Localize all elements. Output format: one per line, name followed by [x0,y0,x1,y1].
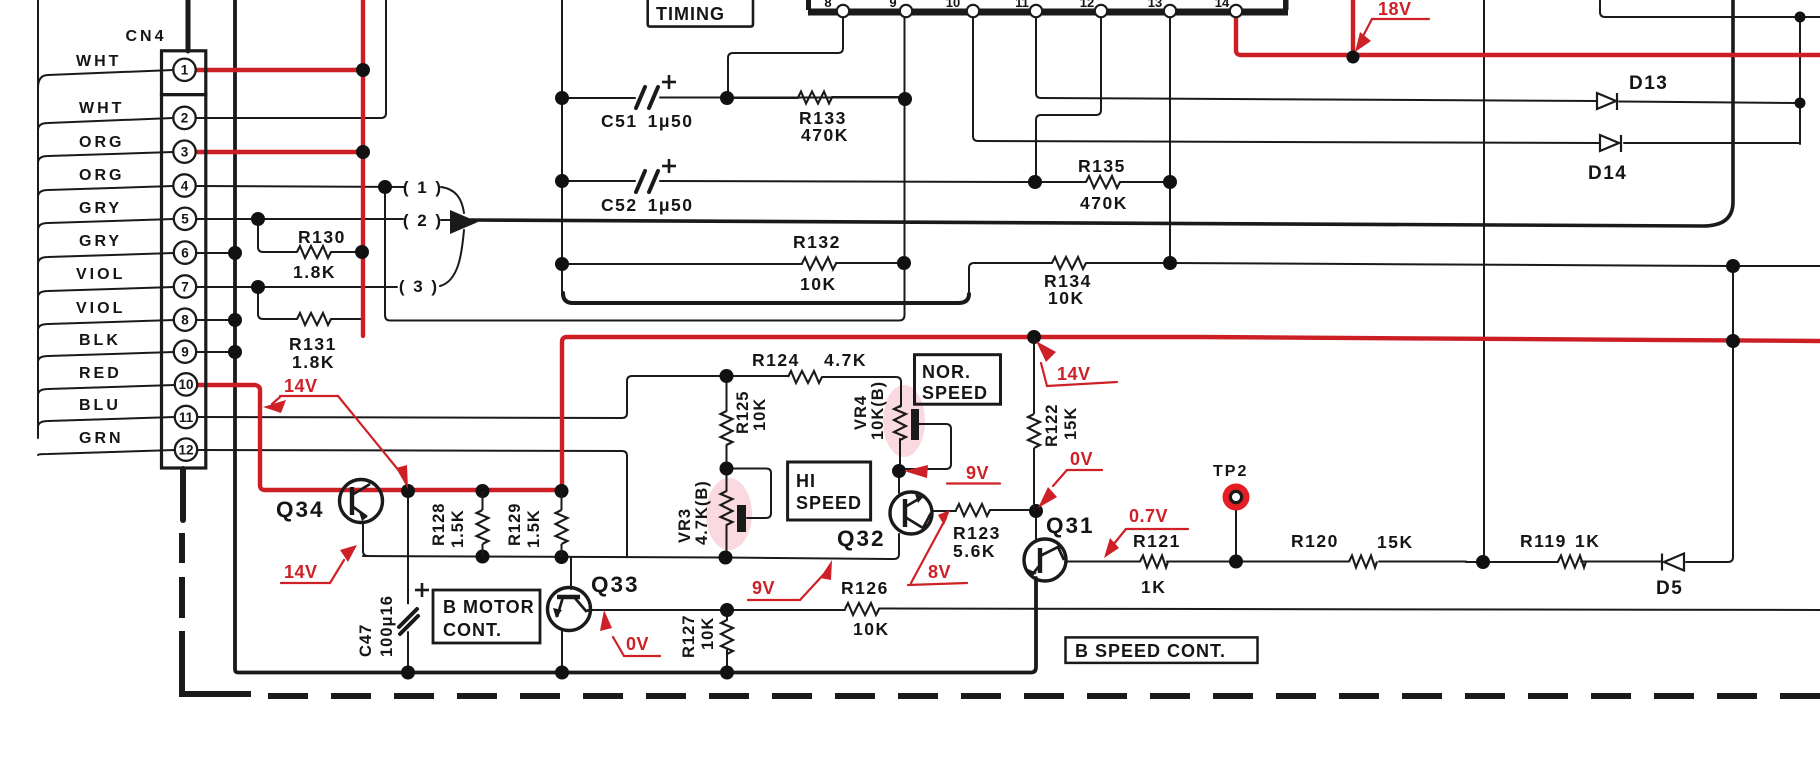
svg-text:R130: R130 [298,227,346,247]
svg-text:14V: 14V [1057,364,1091,384]
svg-text:RED: RED [79,365,122,382]
svg-text:C51 1μ50: C51 1μ50 [601,111,694,131]
svg-text:7: 7 [181,279,189,294]
svg-text:R126: R126 [841,578,889,598]
svg-text:1K: 1K [1141,577,1166,597]
svg-text:R135: R135 [1078,156,1126,176]
svg-text:4.7K(B): 4.7K(B) [693,480,711,545]
svg-text:8: 8 [824,0,831,10]
svg-text:10: 10 [178,377,193,392]
svg-text:1.5K: 1.5K [449,509,467,548]
svg-text:13: 13 [1148,0,1162,10]
svg-text:VR4: VR4 [852,395,870,430]
svg-text:470K: 470K [801,125,849,145]
svg-text:11: 11 [1015,0,1029,10]
svg-text:10: 10 [946,0,960,10]
svg-text:9: 9 [181,345,189,360]
svg-text:1.8K: 1.8K [293,262,336,282]
svg-text:Q32: Q32 [837,526,886,551]
svg-text:HI: HI [796,471,816,491]
svg-text:WHT: WHT [79,100,124,117]
svg-text:R127: R127 [680,615,698,658]
svg-text:9: 9 [889,0,896,10]
svg-text:ORG: ORG [79,167,124,184]
svg-text:10K: 10K [853,619,890,639]
svg-text:0V: 0V [626,634,649,654]
svg-text:SPEED: SPEED [922,383,988,403]
svg-text:1.5K: 1.5K [525,509,543,548]
svg-text:1.8K: 1.8K [292,352,335,372]
svg-text:GRY: GRY [79,233,122,250]
svg-text:NOR.: NOR. [922,362,971,382]
svg-text:3: 3 [181,145,189,160]
svg-text:D13: D13 [1629,73,1668,94]
svg-text:14V: 14V [284,376,318,396]
svg-text:4: 4 [181,178,189,193]
svg-text:BLK: BLK [79,332,121,349]
svg-text:( 1 ): ( 1 ) [403,178,443,197]
svg-text:5.6K: 5.6K [953,541,996,561]
svg-text:C52 1μ50: C52 1μ50 [601,195,694,215]
svg-text:GRN: GRN [79,430,124,447]
svg-text:10K: 10K [699,617,717,650]
svg-text:ORG: ORG [79,134,124,151]
svg-text:R124: R124 [752,350,800,370]
svg-text:0V: 0V [1070,449,1093,469]
svg-text:15K: 15K [1377,532,1414,552]
svg-text:1K: 1K [1575,531,1600,551]
svg-text:1: 1 [181,63,189,78]
svg-text:0.7V: 0.7V [1129,506,1168,526]
svg-text:12: 12 [178,442,193,457]
svg-text:8V: 8V [928,562,951,582]
svg-text:14: 14 [1215,0,1230,10]
svg-text:R128: R128 [430,503,448,546]
svg-text:R121: R121 [1133,531,1181,551]
svg-text:2: 2 [181,111,189,126]
svg-text:C47: C47 [357,624,375,657]
svg-text:TP2: TP2 [1213,463,1248,480]
svg-text:15K: 15K [1062,407,1080,440]
svg-text:( 2 ): ( 2 ) [403,211,443,230]
svg-text:R123: R123 [953,523,1001,543]
svg-text:Q31: Q31 [1046,513,1095,538]
svg-text:R125: R125 [734,391,752,434]
svg-text:12: 12 [1080,0,1094,10]
svg-text:8: 8 [181,313,189,328]
svg-text:VIOL: VIOL [76,266,125,283]
svg-text:GRY: GRY [79,200,122,217]
svg-text:CONT.: CONT. [443,620,502,640]
svg-text:R122: R122 [1043,404,1061,447]
svg-text:VR3: VR3 [676,508,694,543]
svg-text:R131: R131 [289,334,337,354]
svg-text:11: 11 [179,410,194,425]
svg-text:D5: D5 [1656,578,1683,599]
svg-text:5: 5 [181,212,189,227]
svg-text:18V: 18V [1378,0,1412,19]
svg-text:Q34: Q34 [276,497,325,522]
svg-text:9V: 9V [966,463,989,483]
svg-text:CN4: CN4 [125,28,166,45]
svg-text:TIMING: TIMING [656,4,725,24]
svg-text:10K: 10K [751,398,769,431]
svg-text:R129: R129 [506,503,524,546]
svg-text:10K: 10K [800,274,837,294]
svg-text:R120: R120 [1291,531,1339,551]
svg-text:100μ16: 100μ16 [378,595,396,657]
svg-text:VIOL: VIOL [76,300,125,317]
svg-text:10K: 10K [1048,288,1085,308]
svg-text:10K(B): 10K(B) [869,381,887,440]
svg-text:WHT: WHT [76,53,121,70]
svg-text:14V: 14V [284,562,318,582]
svg-text:R119: R119 [1520,531,1567,551]
svg-text:( 3 ): ( 3 ) [399,277,439,296]
svg-text:4.7K: 4.7K [824,350,867,370]
svg-text:Q33: Q33 [591,572,640,597]
svg-text:D14: D14 [1588,163,1627,184]
svg-text:470K: 470K [1080,193,1128,213]
svg-text:SPEED: SPEED [796,493,862,513]
svg-text:B SPEED CONT.: B SPEED CONT. [1075,641,1226,661]
svg-text:9V: 9V [752,578,775,598]
svg-text:6: 6 [181,245,189,260]
svg-text:B MOTOR: B MOTOR [443,597,535,617]
svg-text:R132: R132 [793,232,841,252]
svg-text:BLU: BLU [79,397,121,414]
